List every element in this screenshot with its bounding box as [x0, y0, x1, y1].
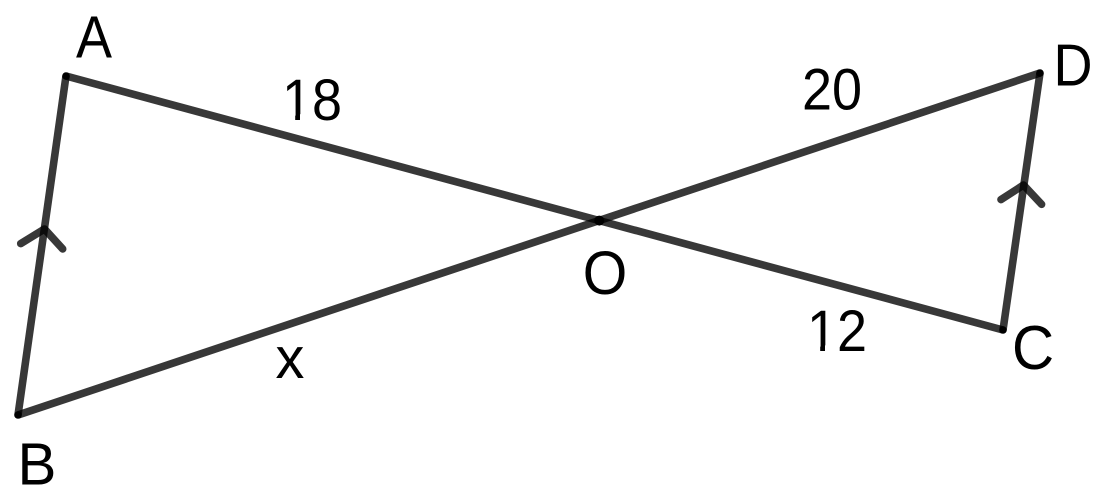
node B: [14, 411, 22, 419]
svg-text:O: O: [583, 238, 628, 307]
node A: [62, 72, 70, 80]
arrow tick on AB: [21, 229, 63, 249]
label 12 foot mask: [809, 345, 820, 351]
wire: segment BD through O: [18, 73, 1040, 415]
svg-text:x: x: [276, 326, 305, 391]
wire: segment DC: [1003, 73, 1040, 330]
arrow tick on DC: [1001, 185, 1042, 204]
node O: [594, 216, 604, 226]
label 18 foot mask: [284, 114, 295, 120]
svg-text:B: B: [18, 432, 57, 498]
svg-text:D: D: [1054, 33, 1093, 99]
node C: [999, 326, 1007, 334]
svg-text:12: 12: [807, 298, 867, 364]
svg-text:20: 20: [802, 56, 862, 122]
wire: segment AC through O: [66, 76, 1003, 330]
node D: [1036, 69, 1044, 77]
svg-text:A: A: [76, 5, 112, 71]
svg-text:18: 18: [282, 67, 342, 133]
wire: segment AB: [18, 76, 66, 415]
svg-text:C: C: [1012, 312, 1054, 382]
